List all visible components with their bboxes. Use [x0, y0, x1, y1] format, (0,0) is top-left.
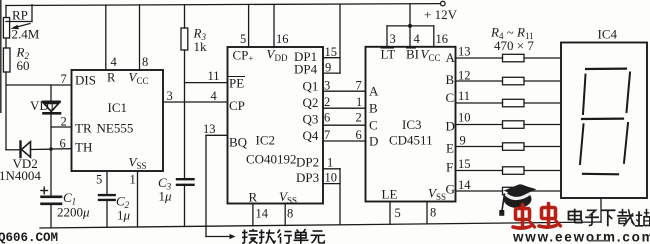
svg-text:7: 7: [356, 79, 362, 93]
wire Q1 to A: [323, 90, 366, 92]
svg-text:R: R: [249, 190, 258, 205]
wire C3 lower: [184, 185, 186, 227]
svg-text:1μ: 1μ: [117, 208, 131, 223]
resistor R5: [503, 77, 525, 85]
wire Q4 to D: [323, 140, 366, 142]
svg-text:14: 14: [256, 207, 269, 221]
capacitor C1: [41, 187, 61, 204]
wire C2 lower: [106, 200, 108, 227]
svg-text:A: A: [446, 50, 456, 65]
display segment d: [583, 173, 618, 176]
svg-text:3: 3: [167, 89, 173, 103]
svg-text:Q606.COM: Q606.COM: [0, 231, 58, 244]
wire DP1 stub: [323, 57, 340, 59]
svg-text:2200μ: 2200μ: [57, 205, 90, 220]
resistor R2: [3, 48, 10, 72]
wire DP1-DP4 tie to +12V: [339, 4, 341, 73]
svg-text:10: 10: [458, 111, 471, 125]
svg-text:2.4M: 2.4M: [12, 27, 40, 42]
svg-text:NE555: NE555: [97, 121, 134, 136]
svg-text:DP3: DP3: [296, 170, 319, 185]
wire C1 lower: [50, 204, 52, 228]
svg-text:LE: LE: [382, 187, 398, 202]
svg-text:4: 4: [111, 55, 118, 69]
svg-text:G: G: [446, 182, 455, 197]
svg-text:IC2: IC2: [256, 133, 276, 148]
wire pin8 Vcc: [139, 5, 141, 70]
svg-text:7: 7: [61, 72, 67, 86]
wire IC3 pin8 Vss: [426, 202, 428, 224]
svg-text:6: 6: [60, 137, 66, 151]
junction TH node: [49, 147, 53, 151]
svg-text:8: 8: [430, 206, 436, 220]
wire IC2 pin14 R: [252, 204, 254, 226]
svg-text:2: 2: [324, 95, 330, 109]
svg-text:IC4: IC4: [598, 27, 618, 42]
svg-text:E: E: [446, 141, 454, 156]
resistor R6: [503, 99, 525, 107]
svg-text:3: 3: [324, 79, 330, 93]
svg-text:9: 9: [325, 61, 331, 75]
wire DP3 stub: [323, 183, 340, 185]
svg-text:RP: RP: [12, 8, 28, 23]
svg-text:8: 8: [287, 207, 293, 221]
svg-text:1μ: 1μ: [159, 189, 173, 204]
wire pin4 R: [105, 5, 107, 70]
display segment b: [627, 73, 631, 113]
svg-text:C: C: [369, 118, 378, 133]
svg-text:+ 12V: + 12V: [424, 7, 458, 22]
svg-text:CO40192: CO40192: [246, 152, 297, 167]
display segment g: [582, 117, 623, 120]
svg-text:2: 2: [356, 111, 362, 125]
scan border left: [0, 0, 2, 113]
svg-text:A: A: [369, 84, 379, 99]
svg-text:IC3: IC3: [402, 117, 422, 132]
svg-text:PE: PE: [229, 76, 244, 91]
svg-text:1: 1: [130, 173, 136, 187]
wire PE pin11: [185, 82, 228, 84]
resistor R10: [503, 187, 525, 195]
svg-text:C: C: [446, 90, 455, 105]
display segment a: [586, 67, 626, 70]
svg-text:VD1: VD1: [30, 98, 55, 113]
diode VD2: [6, 142, 51, 158]
svg-text:2: 2: [61, 115, 67, 129]
svg-text:CP: CP: [229, 98, 245, 113]
svg-text:13: 13: [203, 122, 216, 136]
wire IC2 pin8 Vss: [284, 204, 286, 226]
svg-text:F: F: [446, 160, 453, 175]
wire bottom ground rail: [40, 222, 601, 228]
junction IC3 supply node: [408, 24, 412, 28]
watermark dianzi xiazaizhan characters: [569, 209, 650, 227]
wire R3 to C3: [184, 50, 186, 179]
wire BQ pin13 to execute unit: [206, 135, 236, 239]
svg-text:1: 1: [327, 156, 333, 170]
svg-text:CP+: CP+: [233, 48, 254, 64]
wire R3 top: [184, 5, 186, 28]
svg-text:VSS: VSS: [428, 186, 446, 203]
wire +12V feed to IC3: [387, 4, 434, 47]
wire left rail lower: [5, 72, 7, 150]
svg-text:10: 10: [325, 171, 338, 185]
IC2 CO40192 box: [228, 47, 324, 204]
display segment c: [624, 123, 628, 163]
wire IC4 common cathode: [600, 198, 602, 222]
svg-text:12: 12: [458, 69, 471, 83]
svg-text:IC1: IC1: [108, 100, 128, 115]
wire output c row: [456, 102, 562, 104]
svg-text:VCC: VCC: [421, 47, 441, 64]
svg-text:5: 5: [240, 32, 246, 46]
diode VD1: [43, 102, 60, 114]
IC4 display box: [561, 43, 647, 199]
wire Q3 to C: [323, 124, 366, 126]
wire pin5 to C2: [106, 171, 108, 195]
svg-text:BI: BI: [406, 47, 419, 62]
svg-text:3: 3: [390, 32, 396, 46]
wire VD1 branch upper: [50, 85, 52, 101]
svg-text:9: 9: [460, 134, 466, 148]
wire Q2 to B: [323, 107, 366, 109]
wire left rail upper: [5, 6, 7, 18]
capacitor C2: [99, 195, 115, 200]
IC3 CD4511 box: [366, 47, 456, 202]
svg-text:DP4: DP4: [294, 62, 318, 77]
svg-text:Q1: Q1: [303, 79, 319, 94]
svg-text:Q4: Q4: [303, 128, 319, 143]
svg-text:11: 11: [458, 89, 470, 103]
svg-text:TR: TR: [75, 121, 92, 136]
svg-text:11: 11: [208, 69, 220, 83]
svg-text:16: 16: [276, 32, 289, 46]
wire RP to R2: [5, 38, 7, 48]
resistor R4: [503, 54, 525, 62]
svg-text:VSS: VSS: [279, 189, 297, 206]
svg-text:DP2: DP2: [296, 155, 319, 170]
watermark chongchong red characters: [513, 204, 561, 229]
svg-text:16: 16: [436, 32, 449, 46]
resistor R8: [503, 143, 525, 151]
svg-text:R: R: [107, 71, 116, 85]
capacitor C3: [177, 179, 194, 185]
svg-text:4: 4: [414, 32, 421, 46]
wire VD1 to TH junction: [50, 113, 52, 149]
svg-text:1k: 1k: [194, 39, 208, 54]
svg-text:4: 4: [211, 89, 218, 103]
wire DP2 stub: [323, 168, 340, 170]
svg-text:15: 15: [458, 157, 471, 171]
svg-text:15: 15: [325, 45, 338, 59]
svg-text:5: 5: [96, 173, 102, 187]
svg-text:1: 1: [356, 95, 362, 109]
svg-text:LT: LT: [381, 47, 396, 62]
wire TR pin2: [51, 126, 72, 128]
resistor R3: [181, 28, 188, 50]
svg-text:Q3: Q3: [303, 112, 319, 127]
resistor R9: [503, 167, 525, 175]
svg-text:14: 14: [458, 178, 471, 192]
IC1 NE555 box: [72, 70, 164, 171]
svg-text:60: 60: [17, 58, 30, 73]
svg-text:D: D: [369, 134, 378, 149]
wire output g row: [456, 190, 562, 192]
wire TH pin6: [51, 148, 72, 150]
svg-text:VSS: VSS: [129, 155, 147, 172]
display segment e: [580, 124, 584, 164]
wire DP4 stub: [323, 72, 340, 74]
svg-text:B: B: [446, 72, 455, 87]
wire output d row: [456, 124, 562, 126]
watermark graduation cap: [499, 184, 536, 216]
wire C1 upper: [50, 149, 52, 197]
wire output f row: [456, 170, 562, 172]
wire DP2-DP3 tie to ground: [339, 169, 341, 225]
svg-text:VCC: VCC: [129, 70, 149, 87]
display segment f: [583, 75, 586, 115]
wire pin1 ground: [137, 171, 139, 227]
node +12V terminal: [441, 1, 446, 6]
svg-text:Q2: Q2: [303, 95, 319, 110]
wire DIS pin7: [6, 84, 72, 86]
wire IC3 pin5 LE: [389, 202, 391, 225]
potentiometer RP: [3, 5, 32, 38]
svg-text:BQ: BQ: [229, 135, 248, 150]
svg-text:CD4511: CD4511: [389, 133, 433, 148]
resistor R7: [503, 121, 525, 129]
wire IC2 pin5: [248, 5, 250, 47]
svg-text:D: D: [446, 119, 455, 134]
svg-text:1N4004: 1N4004: [0, 168, 41, 183]
svg-text:VDD: VDD: [267, 47, 288, 64]
svg-text:DIS: DIS: [75, 73, 96, 88]
svg-text:6: 6: [324, 111, 330, 125]
svg-text:7: 7: [324, 128, 330, 142]
text to-execute-unit arrow label: [242, 229, 325, 244]
svg-text:13: 13: [458, 45, 471, 59]
svg-text:B: B: [369, 101, 378, 116]
svg-text:www.eeworm.com: www.eeworm.com: [512, 230, 650, 244]
svg-text:6: 6: [356, 128, 362, 142]
svg-text:470 × 7: 470 × 7: [494, 38, 534, 53]
svg-text:5: 5: [395, 206, 401, 220]
wire output a row: [456, 57, 562, 59]
svg-text:8: 8: [142, 55, 148, 69]
wire output e row: [456, 146, 562, 148]
svg-text:TH: TH: [75, 140, 92, 155]
wire top +12V rail: [6, 4, 441, 6]
wire IC2 pin16: [273, 5, 275, 48]
wire pin3 output to CP: [163, 101, 228, 103]
wire output b row: [456, 80, 562, 82]
